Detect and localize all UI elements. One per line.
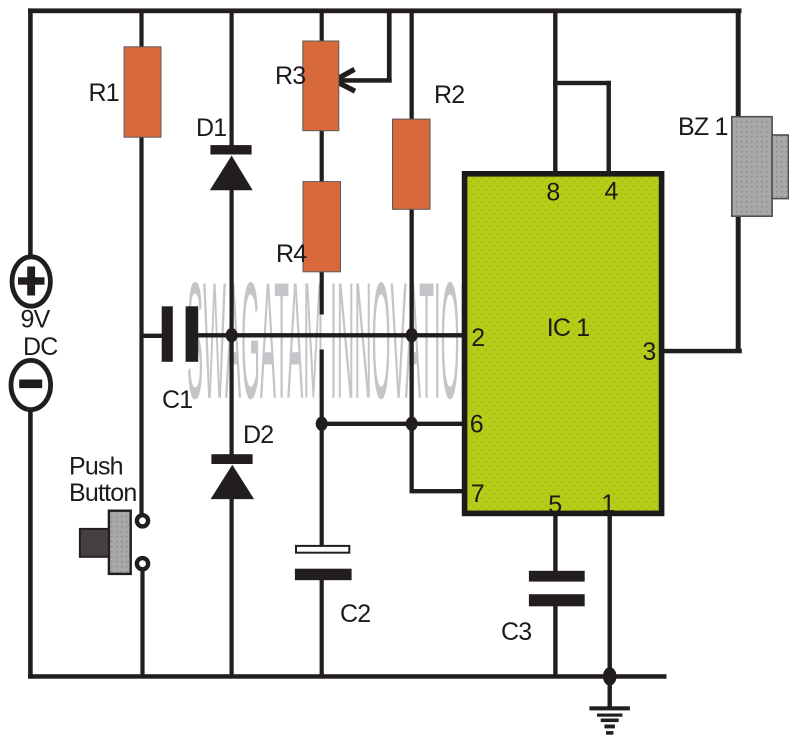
wire R3 top lead [320,10,324,43]
wire R2 bottom lead down to pin7 jog [410,208,414,493]
pot wiper arrowhead [334,69,355,91]
push button bottom terminal [137,558,148,569]
resistor R2 [393,119,431,209]
wire buzzer column (supply rail to pin 3) [736,10,741,351]
svg-text:DC: DC [23,333,58,361]
svg-text:9V: 9V [21,306,51,334]
diode D1 [210,145,251,154]
resistor R4 [303,182,341,272]
diode D2 [211,454,252,464]
svg-text:8: 8 [546,179,560,207]
svg-text:Button: Button [69,479,136,507]
capacitor C2 (polarized) [296,546,349,553]
wire R3 to R4 [320,129,324,184]
wire pin 6 net horizontal [322,422,463,426]
wire R1 top lead [139,10,143,48]
svg-text:BZ 1: BZ 1 [678,113,728,141]
wire pin 3 net horizontal [660,349,742,354]
node junction pin1/ground [603,667,617,685]
wire D1 top lead [230,10,234,147]
svg-text:C1: C1 [162,386,192,414]
battery positive terminal [12,257,50,306]
battery negative terminal [11,360,51,409]
push button top terminal [137,515,148,526]
wire D2 to ground rail [230,497,234,677]
wire pin 4 vertical lead [607,81,611,173]
wire C2 bottom to ground rail [320,579,324,677]
svg-text:R3: R3 [275,62,305,90]
wire left rail lower (battery -) [28,409,33,679]
node junction D1/C1/pin2 [226,328,238,342]
wire node to C2 top [320,424,324,546]
buzzer BZ1 body [732,117,772,217]
svg-text:C3: C3 [501,618,531,646]
resistor R1 [124,47,161,137]
wire ground stem [608,676,612,707]
wire R1 bottom lead to push button [139,136,143,514]
svg-text:7: 7 [471,480,485,508]
node junction R2/pin6 [406,417,418,431]
svg-text:IC 1: IC 1 [547,314,590,342]
ground symbol [589,706,630,710]
wire R4 bottom lead (crossover gap at pin2 net) [320,271,324,315]
wire bottom ground rail [28,674,666,679]
wire left rail upper (battery +) [28,8,33,258]
wire pin 7 net horizontal [410,489,463,493]
capacitor C1 [162,306,173,362]
wire pin 2 net (C1 to IC pin 2) [198,333,464,337]
svg-text:5: 5 [548,491,562,519]
svg-text:R2: R2 [434,81,464,109]
node junction R2/pin2 [406,328,418,342]
wire C3 bottom to ground rail [553,605,557,676]
wire R4/C2 node to pin6 net [320,350,324,426]
svg-text:R1: R1 [89,79,119,107]
capacitor C3 [529,571,585,582]
svg-text:2: 2 [471,324,485,352]
wire pin 4 jog horizontal [553,81,611,85]
svg-text:Push: Push [69,453,123,481]
node junction R4/C2/pin6 [316,417,328,431]
svg-text:6: 6 [470,411,484,439]
resistor R3 (pot body) [303,41,339,131]
push button body [109,511,131,574]
wire pot wiper horizontal [337,78,392,83]
wire R2 top lead [410,10,414,121]
watermark SWAGATAM INNOVATIONS [187,247,493,433]
wire pot wiper vertical to rail [387,10,392,83]
wire D1 to D2 [230,188,234,456]
wire top supply rail [28,8,742,13]
wire pin 1 to ground rail [608,514,612,676]
svg-text:1: 1 [601,490,615,518]
wire pin 5 to C3 [553,514,557,572]
buzzer BZ1 tab [772,135,788,199]
push button plunger [80,529,109,557]
svg-text:C2: C2 [340,600,370,628]
wire push button to ground rail [140,570,144,676]
svg-text:D2: D2 [243,421,273,449]
op-amp/timer IC U1 body [465,174,662,514]
svg-text:D1: D1 [196,114,226,142]
svg-text:3: 3 [642,338,656,366]
svg-text:4: 4 [605,178,619,206]
wire C1 left lead [142,334,164,338]
wire pin 8 to supply rail [553,10,557,173]
svg-text:R4: R4 [276,240,307,268]
